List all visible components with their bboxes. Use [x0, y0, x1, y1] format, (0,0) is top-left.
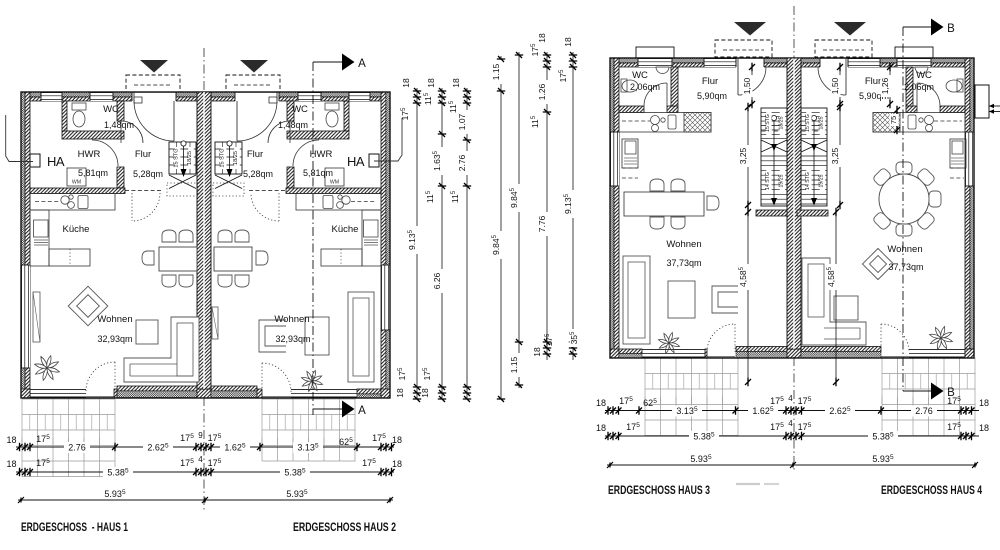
left wall terrace window H1 — [21, 265, 30, 368]
entry door arc H4 — [818, 67, 846, 95]
vertical chain L1 — [546, 52, 548, 360]
entry door arc H3 — [738, 67, 766, 95]
ghost erased text — [736, 483, 760, 485]
WC west wall H2 — [344, 101, 349, 131]
svg-text:WC: WC — [103, 104, 119, 115]
HWR door stub H1 — [117, 167, 124, 188]
svg-text:Flur: Flur — [247, 149, 263, 160]
canopy H4 — [815, 40, 872, 57]
svg-text:WC: WC — [292, 104, 308, 115]
window sill bump H3 — [636, 47, 674, 58]
svg-text:7.76: 7.76 — [537, 215, 547, 232]
terrace door dotted arc H1 — [86, 362, 115, 391]
WC door arc H3 — [644, 83, 667, 106]
svg-text:1.15: 1.15 — [491, 63, 501, 80]
entry door panel H1 — [134, 97, 142, 103]
svg-text:18: 18 — [6, 459, 16, 469]
door threshold H2 — [262, 396, 291, 398]
terrace tiles Haus 3 — [645, 358, 738, 436]
left wall window H3 — [610, 132, 619, 186]
wc sink H3 — [656, 67, 669, 74]
WC south wall H2 — [287, 131, 349, 139]
svg-text:18: 18 — [392, 435, 402, 445]
dining table H3 — [624, 192, 704, 216]
svg-text:15 STG: 15 STG — [220, 148, 226, 167]
svg-text:18: 18 — [979, 398, 989, 408]
dimension row 2 right building — [605, 435, 979, 437]
svg-text:15 STG: 15 STG — [174, 148, 180, 167]
party wall foot — [197, 389, 211, 398]
sofa H2 — [348, 292, 374, 382]
bottom window band H1 — [30, 389, 86, 391]
bottom wall pier H2 — [357, 389, 381, 394]
round dining table H4 — [879, 174, 929, 224]
canopy H2 — [226, 75, 280, 92]
svg-text:2.76: 2.76 — [457, 154, 467, 171]
svg-text:5,81qm: 5,81qm — [303, 168, 333, 178]
svg-text:32,93qm: 32,93qm — [97, 334, 132, 344]
svg-text:18: 18 — [420, 388, 430, 398]
svg-text:1,50: 1,50 — [742, 77, 752, 94]
svg-text:18/25: 18/25 — [779, 116, 785, 129]
right wall window H2 — [381, 265, 390, 330]
svg-text:37,73qm: 37,73qm — [888, 262, 923, 272]
entry door opening H1 — [132, 92, 176, 102]
sink H1 — [78, 196, 88, 209]
toilet H3 — [622, 80, 638, 92]
window sill bump H4 — [895, 47, 933, 58]
left wall Haus 3 — [610, 58, 614, 358]
vertical chain 4 — [500, 56, 502, 399]
dimension row 3 left building — [18, 499, 393, 501]
stair Haus 4 — [801, 108, 827, 206]
entry door arc H1 — [134, 101, 174, 141]
HWR south wall H1 — [30, 188, 125, 194]
svg-text:4: 4 — [198, 455, 203, 464]
svg-text:19/25: 19/25 — [779, 174, 785, 187]
HWR door arc H1 — [92, 140, 118, 166]
svg-text:2.76: 2.76 — [915, 406, 933, 416]
svg-text:1.15: 1.15 — [509, 356, 519, 373]
dining table H1 — [159, 247, 197, 271]
terrace door sill H1 — [117, 386, 199, 391]
bottom window band H4 — [909, 349, 965, 351]
kitchen counter H3 — [619, 113, 711, 133]
svg-text:1,26: 1,26 — [880, 77, 890, 94]
top wall window H2 a (WC) — [298, 92, 321, 101]
WC door arc H4 — [917, 83, 940, 106]
svg-text:15 STG: 15 STG — [765, 114, 771, 132]
armchair H3 — [712, 286, 738, 313]
dim 1,26 H4 — [889, 64, 891, 106]
top wall right building — [610, 58, 974, 63]
coffee table H3 — [668, 281, 695, 318]
svg-text:2.76: 2.76 — [68, 443, 86, 453]
svg-text:18: 18 — [563, 37, 573, 47]
svg-text:18/25: 18/25 — [233, 151, 239, 165]
kitchen counter H1 — [30, 194, 115, 211]
WC south wall H3 — [619, 106, 644, 113]
svg-text:Küche: Küche — [63, 224, 90, 235]
svg-text:18/25: 18/25 — [187, 151, 193, 165]
top wall window H1 b (WC) — [90, 92, 113, 101]
svg-text:14 STG: 14 STG — [805, 172, 811, 190]
svg-text:Wohnen: Wohnen — [887, 244, 922, 255]
svg-text:5,28qm: 5,28qm — [243, 169, 273, 179]
svg-text:18: 18 — [979, 423, 989, 433]
dimension row 2 left building — [16, 471, 394, 473]
dimension row 3 right building — [607, 464, 977, 466]
svg-text:Flur: Flur — [702, 76, 718, 87]
outer boundary right building — [610, 58, 974, 358]
svg-text:18: 18 — [426, 78, 436, 88]
left wall Haus 1 — [21, 92, 25, 398]
chairs H1 — [162, 230, 176, 242]
svg-text:5,90qm: 5,90qm — [697, 91, 727, 101]
dimension row 1 left building — [16, 446, 394, 448]
party wall Haus1/Haus2 — [197, 92, 211, 389]
sink H2 — [323, 196, 333, 209]
svg-text:1,48qm: 1,48qm — [278, 120, 308, 130]
WC south wall H1 — [62, 131, 124, 139]
side table H1 — [136, 320, 158, 344]
entry door arc H2 — [237, 101, 277, 141]
terrace door sill H2 — [211, 386, 257, 391]
kitchen tall unit H1 — [30, 210, 49, 266]
svg-text:WC: WC — [632, 70, 648, 81]
centre line party wall left building — [203, 48, 205, 93]
svg-text:A: A — [358, 58, 366, 70]
svg-text:18: 18 — [395, 388, 405, 398]
hob H1 — [61, 196, 69, 204]
tall cabinet crosshatch H4 — [873, 113, 900, 133]
dimension row 1 right building — [605, 410, 979, 412]
dim 4,58 H3 — [747, 210, 749, 384]
open passage dashed H1 — [125, 190, 162, 192]
svg-text:37,73qm: 37,73qm — [666, 258, 701, 268]
dim 4,58 H4 — [835, 210, 837, 384]
HWR door arc H2 — [293, 140, 319, 166]
bottom wall left building — [21, 389, 30, 398]
WC south wall H4 — [906, 106, 917, 113]
party wall Haus3/Haus4 — [787, 58, 801, 349]
vertical chain 1 right of left building — [416, 88, 418, 399]
chairs H2 — [218, 230, 232, 242]
svg-text:15 STG: 15 STG — [805, 114, 811, 132]
HA box H1 — [30, 154, 40, 167]
svg-text:5,28qm: 5,28qm — [133, 169, 163, 179]
WM washing machine H2 — [325, 168, 344, 186]
terrace door dotted arc H4 — [881, 324, 909, 352]
sink H4 — [925, 116, 934, 125]
kitchen lower counter H1 — [49, 249, 90, 266]
entry door opening H4 — [820, 58, 848, 68]
door threshold H4 — [881, 356, 909, 358]
svg-text:1,48qm: 1,48qm — [104, 120, 134, 130]
kitchen counter H2 — [296, 194, 381, 211]
utility connection box right of Haus 4 — [975, 85, 989, 118]
HA leader H2 — [374, 118, 402, 161]
svg-text:Wohnen: Wohnen — [666, 239, 701, 250]
svg-text:14 STG: 14 STG — [765, 172, 771, 190]
sofa H3 — [623, 256, 650, 344]
dim 3,25 H3 — [747, 106, 749, 206]
section line A — [312, 62, 314, 415]
L sofa H4 — [802, 258, 866, 345]
dim 3,25 H4 — [839, 106, 841, 206]
stair south wall H3 — [756, 210, 787, 216]
radiator H2 — [212, 307, 218, 339]
svg-text:WM: WM — [330, 180, 339, 186]
bottom wall right building — [610, 349, 619, 358]
svg-text:5,81qm: 5,81qm — [78, 168, 108, 178]
svg-text:32,93qm: 32,93qm — [275, 334, 310, 344]
stair south wall H4 — [797, 210, 828, 216]
WC east wall H1 — [117, 101, 124, 121]
terrace tiles Haus 4 — [882, 358, 976, 436]
svg-text:3,25: 3,25 — [830, 147, 840, 164]
plant H1 — [35, 356, 60, 381]
terrace tiles Haus 2 — [262, 399, 356, 461]
diamond armchair H4 — [862, 248, 893, 279]
toilet H2 — [326, 111, 338, 127]
svg-text:Wohnen: Wohnen — [97, 314, 132, 325]
top wall window H3 (WC) — [638, 58, 672, 67]
HWR south wall H2 — [286, 188, 381, 194]
wc sink H4 — [915, 67, 928, 74]
svg-text:18: 18 — [6, 435, 16, 445]
stair Haus 2 — [215, 142, 242, 174]
coffee table H2 — [305, 317, 329, 355]
top wall window H2 b — [349, 92, 370, 101]
canopy H1 — [126, 75, 180, 92]
svg-text:Wohnen: Wohnen — [274, 314, 309, 325]
dining table H2 — [214, 247, 252, 271]
entry door panel H2 — [269, 97, 277, 103]
plant H3 — [659, 333, 680, 354]
flur window H3 — [704, 58, 736, 67]
side table H4 — [834, 296, 858, 320]
svg-text:ERDGESCHOSS - HAUS 1: ERDGESCHOSS - HAUS 1 — [21, 520, 128, 534]
WM washing machine H1 — [67, 168, 86, 186]
svg-text:18/25: 18/25 — [819, 116, 825, 129]
section line B — [902, 27, 904, 391]
svg-text:18: 18 — [451, 78, 461, 88]
open passage dashed H2 — [249, 190, 286, 192]
kitchen lower counter H2 — [321, 249, 362, 266]
living room dotted arc H1 — [132, 193, 160, 221]
plant H2 — [302, 371, 323, 392]
terrace door dotted arc H2 — [262, 363, 291, 392]
svg-text:WC: WC — [916, 70, 932, 81]
svg-text:B: B — [947, 23, 955, 35]
door threshold H1 — [86, 396, 114, 398]
tall cabinet crosshatch H3 — [684, 113, 711, 133]
svg-text:75: 75 — [889, 116, 898, 124]
dim 1,50 H3 — [751, 64, 753, 106]
svg-text:1.07: 1.07 — [457, 113, 467, 130]
right wall Haus 2 — [381, 92, 386, 398]
svg-text:Küche: Küche — [332, 224, 359, 235]
terrace door dotted arc H3 — [707, 324, 735, 352]
diamond armchair H1 — [68, 286, 108, 326]
kitchen counter H4 — [873, 113, 965, 133]
svg-text:WM: WM — [72, 180, 81, 186]
party wall foot right — [787, 349, 801, 358]
svg-text:Flur: Flur — [135, 149, 151, 160]
hob H2 — [342, 196, 350, 204]
stair Haus 1 — [169, 142, 196, 174]
svg-text:ERDGESCHOSS HAUS 2: ERDGESCHOSS HAUS 2 — [293, 520, 396, 534]
svg-text:2,06qm: 2,06qm — [904, 82, 934, 92]
WC east wall H3 — [671, 67, 678, 106]
svg-text:ERDGESCHOSS HAUS 3: ERDGESCHOSS HAUS 3 — [608, 483, 710, 497]
top wall window H4 — [897, 58, 931, 67]
svg-text:19/25: 19/25 — [819, 174, 825, 187]
stair Haus 3 — [761, 108, 787, 206]
svg-text:ERDGESCHOSS HAUS 4: ERDGESCHOSS HAUS 4 — [881, 483, 982, 497]
svg-text:HWR: HWR — [78, 149, 101, 160]
kitchen right column H4 — [950, 139, 966, 168]
right wall window H4 — [965, 132, 974, 186]
svg-text:6.26: 6.26 — [432, 272, 442, 289]
vertical chain L0 left of right building — [518, 52, 520, 388]
kitchen tall unit H2 — [362, 210, 381, 266]
canopy H3 — [715, 40, 772, 57]
WC west wall H1 — [62, 101, 67, 131]
entry door opening H3 — [736, 58, 764, 68]
entry door jambs H4 — [819, 58, 821, 67]
centre line party wall right building — [793, 6, 795, 59]
chairs H3 — [650, 179, 664, 191]
entry door jambs H1 — [131, 92, 133, 101]
dim 75 H4 — [896, 108, 898, 132]
outer boundary left building — [21, 92, 390, 398]
low window sill H4 — [801, 347, 881, 352]
vertical chain 2 — [441, 88, 443, 399]
svg-text:18: 18 — [401, 78, 411, 88]
HA box H2 — [369, 154, 379, 167]
svg-text:18: 18 — [596, 398, 606, 408]
svg-text:1,50: 1,50 — [830, 77, 840, 94]
right wall Haus 4 — [965, 58, 970, 358]
WC west wall H4 — [906, 67, 913, 106]
terrace tiles Haus 1 — [22, 399, 115, 477]
svg-text:4: 4 — [788, 419, 793, 428]
vertical chain 3 — [466, 88, 468, 399]
bottom window band H2 — [291, 389, 357, 391]
svg-text:18: 18 — [596, 423, 606, 433]
svg-text:3,25: 3,25 — [738, 147, 748, 164]
toilet H1 — [73, 111, 85, 127]
svg-text:1.26: 1.26 — [537, 83, 547, 100]
sink H3 — [651, 116, 660, 125]
living room dotted arc H2 — [251, 193, 279, 221]
low window sill H3 (dining) — [736, 347, 787, 352]
svg-text:9: 9 — [198, 431, 203, 440]
entry door opening H2 — [235, 92, 279, 102]
top wall left building — [21, 92, 390, 97]
toilet H4 — [946, 80, 962, 92]
WC door arc H2 — [268, 121, 290, 143]
radiator H1 — [33, 292, 40, 342]
door threshold H3 — [707, 356, 735, 358]
WC east wall H2 — [287, 101, 294, 121]
WC door arc H1 — [121, 121, 143, 143]
svg-text:Flur: Flur — [865, 76, 881, 87]
HA leader H1 — [6, 115, 33, 162]
armchair H2 — [259, 320, 286, 352]
svg-text:HA: HA — [347, 154, 365, 169]
svg-text:18: 18 — [537, 33, 547, 43]
kitchen left column H3 — [622, 139, 638, 168]
dim 1,50 H4 — [839, 64, 841, 106]
L sofa H1 — [124, 317, 199, 382]
bottom window band H3 — [642, 349, 705, 351]
svg-text:4: 4 — [788, 394, 793, 403]
svg-text:18: 18 — [392, 459, 402, 469]
top wall window H1 a — [41, 92, 62, 101]
svg-text:HA: HA — [47, 154, 65, 169]
flur window H4 — [848, 58, 880, 67]
entry door jambs H2 — [234, 92, 236, 101]
svg-text:18: 18 — [532, 347, 542, 357]
vertical chain L2 — [572, 52, 574, 360]
plant H4 — [930, 327, 953, 350]
HWR door stub H2 — [287, 167, 294, 188]
svg-text:2,06qm: 2,06qm — [630, 82, 660, 92]
svg-text:A: A — [358, 405, 366, 417]
entry door jambs H3 — [735, 58, 737, 67]
